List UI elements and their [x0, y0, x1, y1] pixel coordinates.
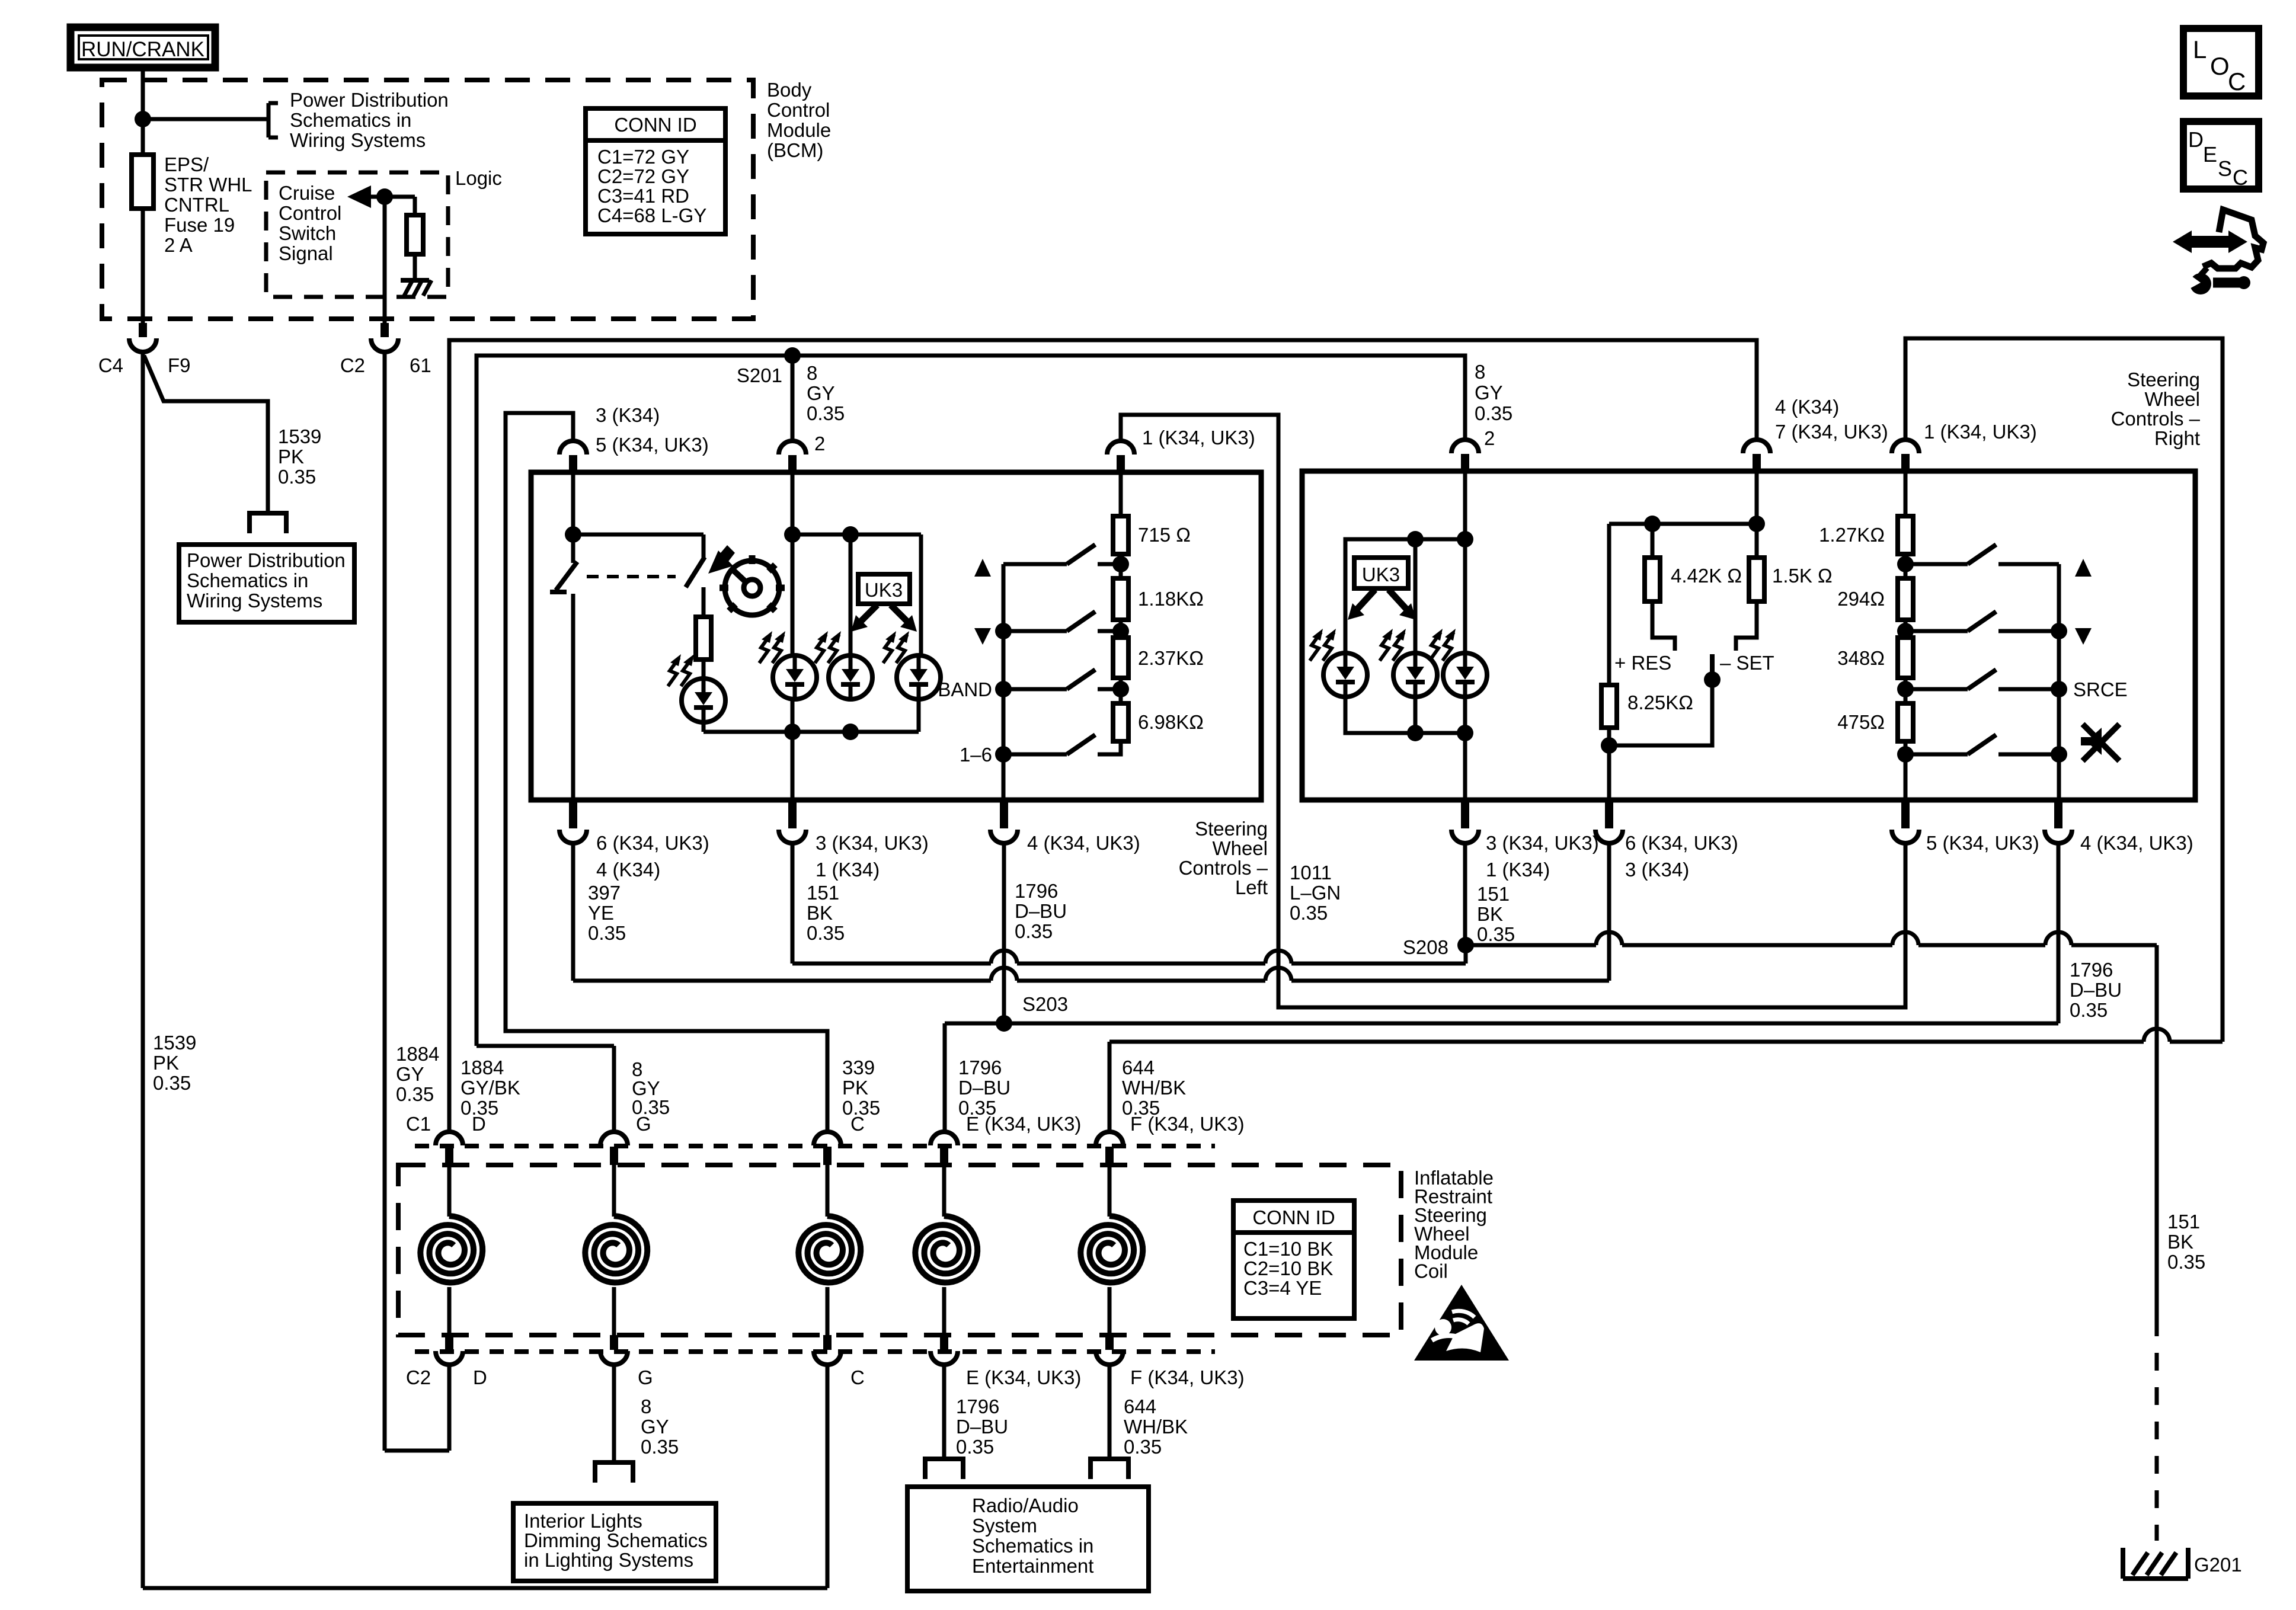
svg-text:1 (K34): 1 (K34): [1486, 859, 1550, 881]
svg-text:RUN/CRANK: RUN/CRANK: [81, 38, 204, 61]
symbol mute speaker: [2081, 728, 2102, 755]
svg-text:Dimming Schematics: Dimming Schematics: [524, 1529, 708, 1551]
coil C1 connector pin G: [600, 1132, 628, 1145]
svg-text:61: 61: [410, 354, 431, 376]
wire 8 GY to coil G: [477, 1044, 614, 1048]
svg-text:151: 151: [1477, 883, 1510, 905]
connector left pin 3/1: [788, 800, 797, 828]
svg-text:BK: BK: [807, 902, 833, 924]
switch cruise right pole: [702, 534, 706, 558]
wire ladder bottom contact: [1098, 741, 1121, 754]
resistor 475: [1904, 678, 1908, 703]
svg-text:Control: Control: [279, 202, 341, 224]
connector right pin 3/1: [1461, 800, 1469, 828]
svg-text:Wiring Systems: Wiring Systems: [187, 590, 322, 612]
svg-text:PK: PK: [153, 1052, 179, 1074]
LED L3: [829, 655, 872, 699]
svg-text:151: 151: [807, 882, 839, 904]
node ladder L3: [1112, 681, 1129, 697]
connector C4 pin F9: [139, 323, 147, 337]
wire 151 BK line A: [791, 962, 795, 966]
svg-text:S201: S201: [737, 364, 782, 386]
wire 151 BK right: [1463, 842, 1467, 945]
svg-text:Wheel: Wheel: [2144, 388, 2200, 410]
svg-text:1796: 1796: [958, 1057, 1002, 1078]
wire 339 PK (pins3/5 to coil C): [506, 413, 827, 1132]
svg-text:1884: 1884: [461, 1057, 504, 1078]
svg-text:Power Distribution: Power Distribution: [290, 89, 449, 111]
svg-text:0.35: 0.35: [956, 1436, 994, 1458]
wire 397 YE: [571, 842, 575, 981]
svg-text:3 (K34): 3 (K34): [1625, 859, 1689, 881]
svg-text:1796: 1796: [956, 1395, 999, 1417]
svg-text:0.35: 0.35: [842, 1097, 880, 1119]
svg-text:0.35: 0.35: [2070, 999, 2108, 1021]
svg-text:1539: 1539: [278, 425, 321, 447]
wire 644 WH/BK line: [1108, 1042, 1112, 1132]
switch left down: [1003, 629, 1067, 633]
svg-text:1884: 1884: [396, 1043, 439, 1065]
svg-text:Control: Control: [767, 99, 830, 121]
wire 1539 PK branch: [144, 356, 268, 513]
svg-text:2: 2: [1484, 427, 1495, 449]
LED R3: [1443, 653, 1487, 697]
icon vehicle directional: [2203, 210, 2263, 268]
switch right down: [1913, 629, 1968, 633]
svg-text:C2=72 GY: C2=72 GY: [597, 165, 689, 187]
wire coil G down: [612, 1365, 616, 1462]
coil C2 connector pin E: [940, 1335, 948, 1350]
resistor 294: [1904, 554, 1908, 578]
resistor 1.18K: [1119, 554, 1123, 578]
connector right pin 5: [1901, 800, 1910, 828]
svg-text:5 (K34, UK3): 5 (K34, UK3): [596, 434, 709, 456]
svg-text:C1=72 GY: C1=72 GY: [597, 146, 689, 168]
svg-text:STR WHL: STR WHL: [164, 174, 252, 196]
svg-text:Fuse 19: Fuse 19: [164, 214, 235, 236]
wire 1884 GY down (BCM C2 to coil C2-D): [383, 351, 387, 1451]
svg-text:151: 151: [2167, 1211, 2200, 1233]
wire 1539 PK bottom run: [143, 1586, 827, 1590]
svg-text:Signal: Signal: [279, 242, 333, 264]
coil spiral D: [447, 1165, 452, 1217]
svg-text:(BCM): (BCM): [767, 139, 823, 161]
connector left pin 2: [779, 441, 806, 454]
contact - SET: [1736, 601, 1757, 651]
svg-text:1.27KΩ: 1.27KΩ: [1819, 524, 1885, 546]
svg-text:BAND: BAND: [938, 678, 992, 700]
node power junction: [135, 111, 151, 127]
svg-text:0.35: 0.35: [807, 402, 845, 424]
svg-text:6 (K34, UK3): 6 (K34, UK3): [596, 832, 709, 854]
svg-text:6.98KΩ: 6.98KΩ: [1138, 711, 1204, 733]
node ladder R3: [1897, 681, 1914, 697]
svg-text:2 A: 2 A: [164, 234, 193, 256]
resistor 1.27K: [1898, 516, 1913, 554]
svg-text:8.25KΩ: 8.25KΩ: [1627, 692, 1693, 713]
svg-text:D: D: [473, 1366, 487, 1388]
terminal G to interior lights: [595, 1462, 633, 1483]
svg-text:0.35: 0.35: [588, 922, 626, 944]
mech link dashed: [587, 575, 676, 578]
coil spiral G: [612, 1165, 616, 1217]
svg-text:Power Distribution: Power Distribution: [187, 549, 346, 571]
svg-text:294Ω: 294Ω: [1837, 588, 1885, 610]
LED R2: [1393, 653, 1437, 697]
UK3 box left: [858, 574, 910, 604]
switch right up: [1913, 562, 1968, 566]
svg-text:8: 8: [1475, 361, 1485, 383]
wire 151 BK left: [791, 842, 795, 964]
svg-text:4 (K34, UK3): 4 (K34, UK3): [1027, 832, 1140, 854]
svg-text:4 (K34): 4 (K34): [596, 859, 660, 881]
svg-text:C1=10 BK: C1=10 BK: [1243, 1238, 1333, 1260]
logic dashed box cruise control: [266, 172, 448, 297]
svg-text:0.35: 0.35: [632, 1096, 670, 1118]
svg-text:C: C: [850, 1366, 865, 1388]
svg-text:Wiring Systems: Wiring Systems: [290, 129, 426, 151]
resistor 1.5K: [1755, 524, 1759, 558]
node ladder R1: [1897, 556, 1914, 572]
cruise signal arrow: [347, 185, 371, 208]
svg-text:Body: Body: [767, 79, 812, 101]
svg-text:Schematics in: Schematics in: [187, 569, 308, 591]
coil spiral C: [826, 1165, 830, 1217]
right led bottom rail: [1345, 697, 1465, 733]
svg-text:644: 644: [1122, 1057, 1155, 1078]
node left led top mid: [784, 526, 801, 543]
svg-text:Switch: Switch: [279, 222, 336, 244]
UK3 box right: [1354, 558, 1408, 588]
icon LOC box: [2183, 28, 2259, 96]
UK3 arrows right: [1356, 590, 1375, 610]
svg-text:D–BU: D–BU: [1015, 900, 1067, 922]
coil C1 connector row dashes: [415, 1144, 1215, 1148]
svg-text:Logic: Logic: [455, 167, 502, 189]
svg-text:Radio/Audio: Radio/Audio: [972, 1494, 1079, 1516]
wire to power distribution callout: [143, 117, 268, 121]
switch cruise left pole: [556, 562, 577, 590]
wire cruise junction down: [383, 197, 387, 324]
svg-text:E: E: [2203, 142, 2217, 167]
svg-text:2: 2: [814, 433, 825, 454]
svg-text:Entertainment: Entertainment: [972, 1555, 1093, 1577]
svg-text:C4=68 L-GY: C4=68 L-GY: [597, 204, 706, 226]
LED L2: [773, 655, 817, 699]
node cruise junction: [376, 188, 393, 205]
svg-text:GY: GY: [807, 382, 835, 404]
connector right pin 7: [1743, 440, 1770, 453]
svg-text:CONN ID: CONN ID: [1252, 1206, 1335, 1228]
svg-text:2.37KΩ: 2.37KΩ: [1138, 647, 1204, 669]
svg-text:WH/BK: WH/BK: [1124, 1416, 1188, 1438]
BCM dashed box: [102, 80, 753, 319]
node res/set right: [1748, 516, 1765, 532]
wire coil F down: [1108, 1365, 1112, 1459]
box Interior Lights Dimming: [513, 1503, 716, 1581]
resistor 6.98K: [1119, 678, 1123, 703]
svg-text:4 (K34): 4 (K34): [1775, 396, 1839, 418]
symbol up arrow right: [2075, 559, 2092, 577]
connector right pin 4: [2054, 800, 2062, 828]
svg-text:S203: S203: [1022, 993, 1068, 1015]
svg-text:3 (K34): 3 (K34): [596, 404, 660, 426]
svg-text:0.35: 0.35: [641, 1436, 679, 1458]
svg-text:Controls –: Controls –: [1179, 857, 1268, 879]
svg-text:Steering: Steering: [2127, 369, 2200, 391]
cruise res/set rail: [1609, 522, 1757, 526]
resistor 8.25K: [1607, 524, 1611, 685]
coil C2 connector pin G: [610, 1335, 618, 1350]
svg-text:0.35: 0.35: [153, 1072, 191, 1094]
node ladder L1: [1112, 556, 1129, 572]
svg-text:C1: C1: [406, 1113, 431, 1135]
svg-text:1 (K34, UK3): 1 (K34, UK3): [1924, 421, 2037, 443]
wire 397 YE right leg: [1607, 842, 1611, 981]
svg-text:0.35: 0.35: [1290, 902, 1328, 924]
svg-text:0.35: 0.35: [278, 466, 316, 488]
node ladder R4: [1897, 746, 1914, 763]
connector right pin 2: [1451, 440, 1479, 453]
coil C2 connector row dashes: [415, 1349, 1215, 1354]
wire left pin1 to ladder: [1119, 472, 1123, 516]
svg-text:UK3: UK3: [1362, 564, 1400, 585]
svg-text:L: L: [2193, 36, 2207, 63]
contact + RES: [1652, 601, 1675, 651]
switch left band: [1003, 687, 1067, 692]
svg-text:System: System: [972, 1515, 1037, 1537]
connector left pin 1: [1107, 441, 1134, 454]
svg-text:397: 397: [588, 882, 621, 904]
warning triangle SIR: [1414, 1285, 1509, 1361]
svg-text:3 (K34, UK3): 3 (K34, UK3): [1486, 832, 1599, 854]
coil spiral F: [1108, 1165, 1112, 1217]
svg-text:4.42K Ω: 4.42K Ω: [1671, 565, 1742, 587]
svg-text:CONN ID: CONN ID: [614, 114, 696, 136]
connector right pin 6/3: [1605, 800, 1613, 828]
resistor 715 ohm: [1113, 516, 1128, 554]
wire 8 GY bus (line2): [477, 356, 1465, 1046]
coil CONN ID table: [1233, 1201, 1354, 1318]
coil C2 connector pin C: [823, 1335, 832, 1350]
svg-text:UK3: UK3: [865, 579, 903, 601]
svg-text:Left: Left: [1235, 876, 1268, 898]
svg-text:GY: GY: [641, 1416, 669, 1438]
svg-text:348Ω: 348Ω: [1837, 647, 1885, 669]
fuse F9 EPS/STR WHL CNTRL: [132, 155, 154, 209]
left switch bus: [1002, 564, 1006, 800]
wire 1539 PK main down: [141, 351, 145, 1588]
svg-text:O: O: [2210, 52, 2230, 80]
connector right pin 1: [1892, 440, 1919, 453]
wire left pin3/5 into switch: [571, 472, 575, 563]
svg-text:3 (K34, UK3): 3 (K34, UK3): [816, 832, 929, 854]
svg-text:C: C: [2228, 68, 2246, 95]
svg-text:1 (K34): 1 (K34): [816, 859, 880, 881]
symbol down arrow right: [2075, 628, 2092, 645]
LED L4: [897, 655, 941, 699]
svg-text:C3=41 RD: C3=41 RD: [597, 185, 689, 207]
svg-text:644: 644: [1124, 1395, 1156, 1417]
svg-text:GY: GY: [396, 1063, 424, 1085]
wire right ladder down: [1904, 741, 1908, 800]
wire S208 to G201 (151 BK): [1466, 943, 1596, 948]
node S208: [1457, 937, 1474, 953]
coil spiral E: [942, 1165, 946, 1217]
svg-text:339: 339: [842, 1057, 875, 1078]
svg-text:1.5K Ω: 1.5K Ω: [1772, 565, 1833, 587]
left led top rail: [792, 533, 921, 537]
svg-text:715 Ω: 715 Ω: [1138, 524, 1191, 546]
gauge speedometer symbol: [725, 561, 779, 615]
cruise actuate arrow: [708, 550, 733, 574]
svg-text:0.35: 0.35: [461, 1097, 498, 1119]
power feed RUN/CRANK box: [71, 27, 215, 68]
wire S201 to left box pin 2: [791, 356, 795, 442]
svg-text:0.35: 0.35: [1477, 923, 1515, 945]
svg-text:Schematics in: Schematics in: [290, 109, 411, 131]
resistor cruise pull-up: [413, 197, 417, 215]
right steering wheel controls box: [1302, 471, 2195, 800]
svg-text:1 (K34, UK3): 1 (K34, UK3): [1142, 427, 1255, 449]
LED R1: [1323, 653, 1367, 697]
svg-text:Cruise: Cruise: [279, 182, 335, 204]
svg-text:Right: Right: [2154, 427, 2200, 449]
svg-text:PK: PK: [842, 1077, 868, 1099]
cruise switch blade right: [1710, 654, 1715, 680]
left steering wheel controls box: [531, 472, 1261, 800]
svg-text:0.35: 0.35: [1124, 1436, 1162, 1458]
switch left 1-6: [1003, 753, 1067, 757]
svg-text:0.35: 0.35: [2167, 1251, 2205, 1273]
svg-text:GY: GY: [1475, 382, 1503, 404]
svg-text:8: 8: [641, 1395, 651, 1417]
svg-text:C4: C4: [98, 354, 123, 376]
terminal F to radio: [1091, 1459, 1128, 1479]
BCM CONN ID table: [586, 108, 725, 234]
node ladder R2: [1897, 623, 1914, 639]
svg-text:in Lighting Systems: in Lighting Systems: [524, 1549, 693, 1571]
svg-text:1–6: 1–6: [960, 744, 992, 766]
coil C2 connector pin F: [1105, 1335, 1114, 1350]
svg-text:WH/BK: WH/BK: [1122, 1077, 1186, 1099]
svg-text:F (K34, UK3): F (K34, UK3): [1130, 1366, 1245, 1388]
UK3 arrows left: [859, 605, 877, 623]
LED L1: [682, 678, 725, 722]
svg-text:D: D: [2188, 127, 2204, 152]
svg-text:C2=10 BK: C2=10 BK: [1243, 1257, 1333, 1279]
connector left pin 6/4: [569, 800, 577, 828]
svg-text:C2: C2: [406, 1366, 431, 1388]
ground cruise logic: [401, 278, 429, 283]
wire 1796 D-BU right leg: [2057, 842, 2061, 1023]
symbol down arrow left: [974, 628, 991, 645]
node S203: [996, 1015, 1012, 1032]
coil C1 connector pin E: [930, 1132, 958, 1145]
box Power Distribution Schematics (left): [179, 545, 354, 622]
wire right pin1 to ladder: [1904, 471, 1908, 516]
svg-text:Wheel: Wheel: [1212, 837, 1268, 859]
svg-text:G: G: [638, 1366, 653, 1388]
resistor left LED1: [702, 587, 706, 617]
svg-text:D–BU: D–BU: [956, 1416, 1008, 1438]
node switch left: [565, 526, 581, 543]
svg-text:C2: C2: [340, 354, 365, 376]
svg-text:PK: PK: [278, 446, 304, 468]
svg-text:0.35: 0.35: [1015, 920, 1053, 942]
coil C2 connector pin D: [445, 1335, 453, 1350]
svg-text:YE: YE: [588, 902, 614, 924]
svg-text:Coil: Coil: [1414, 1260, 1448, 1282]
svg-text:BK: BK: [1477, 903, 1503, 925]
wire switch bridge: [573, 533, 703, 537]
svg-text:BK: BK: [2167, 1231, 2193, 1253]
wire coil E down: [942, 1365, 946, 1459]
svg-text:4 (K34, UK3): 4 (K34, UK3): [2080, 832, 2193, 854]
wire 397 YE line B: [573, 979, 991, 983]
svg-text:Interior Lights: Interior Lights: [524, 1510, 642, 1532]
svg-text:0.35: 0.35: [1475, 402, 1512, 424]
wire 1796 D-BU left pin4: [1002, 842, 1006, 1023]
svg-text:GY/BK: GY/BK: [461, 1077, 520, 1099]
svg-text:CNTRL: CNTRL: [164, 194, 229, 216]
wire left pin2 down: [791, 472, 795, 800]
svg-text:G201: G201: [2194, 1554, 2242, 1576]
right switch bus: [2057, 564, 2061, 800]
symbol up arrow left: [974, 559, 991, 577]
coil module dashed box: [398, 1165, 1401, 1335]
wire 1796 D-BU line: [945, 1022, 2058, 1026]
svg-text:475Ω: 475Ω: [1837, 711, 1885, 733]
ground G201: [2123, 1548, 2188, 1579]
coil C1 connector pin F: [1096, 1132, 1123, 1145]
icon wrench: [2213, 278, 2241, 288]
svg-text:EPS/: EPS/: [164, 153, 209, 175]
connector left pin 4: [1000, 800, 1008, 828]
connector left pin 3/5: [559, 441, 587, 454]
svg-text:7 (K34, UK3): 7 (K34, UK3): [1775, 421, 1888, 443]
svg-text:0.35: 0.35: [396, 1083, 434, 1105]
svg-text:C: C: [2233, 165, 2248, 190]
svg-text:1011: 1011: [1290, 862, 1332, 884]
wire fuse to C4 connector: [141, 209, 145, 324]
resistor 4.42K: [1651, 524, 1655, 558]
svg-text:SRCE: SRCE: [2073, 678, 2128, 700]
svg-text:1796: 1796: [1015, 880, 1058, 902]
svg-text:S208: S208: [1403, 936, 1448, 958]
coil C1 connector pin D: [436, 1132, 463, 1145]
svg-text:6 (K34, UK3): 6 (K34, UK3): [1625, 832, 1738, 854]
icon DESC box: [2183, 121, 2259, 189]
switch right mute: [1913, 753, 1968, 757]
svg-text:5 (K34, UK3): 5 (K34, UK3): [1926, 832, 2039, 854]
svg-text:Controls –: Controls –: [2111, 408, 2201, 430]
node S201: [784, 347, 801, 364]
svg-text:Module: Module: [767, 119, 831, 141]
wire RUN/CRANK to fuse: [141, 68, 145, 155]
svg-text:0.35: 0.35: [807, 922, 845, 944]
svg-text:1539: 1539: [153, 1032, 196, 1054]
svg-text:D–BU: D–BU: [2070, 979, 2122, 1001]
svg-text:– SET: – SET: [1720, 652, 1774, 674]
svg-text:L–GN: L–GN: [1290, 882, 1341, 904]
wire right pin2 down: [1463, 471, 1467, 800]
svg-text:0.35: 0.35: [1122, 1097, 1160, 1119]
svg-text:D–BU: D–BU: [958, 1077, 1011, 1099]
node 8.25K bottom: [1601, 737, 1617, 754]
svg-text:+ RES: + RES: [1614, 652, 1671, 674]
right led top rail: [1345, 539, 1465, 655]
